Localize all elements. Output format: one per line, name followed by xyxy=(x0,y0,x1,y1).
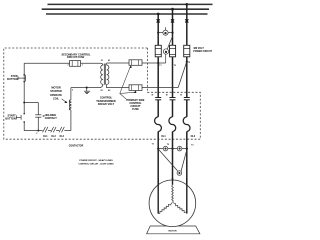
svg-text:X1: X1 xyxy=(101,60,103,62)
svg-text:OL1: OL1 xyxy=(161,136,166,138)
svg-text:T2: T2 xyxy=(174,65,176,67)
svg-text:T1: T1 xyxy=(152,144,154,146)
svg-text:T1: T1 xyxy=(159,65,161,67)
svg-text:480/120 VOLT: 480/120 VOLT xyxy=(98,103,115,106)
svg-text:OPERATE: OPERATE xyxy=(50,94,62,97)
svg-text:MOTOR: MOTOR xyxy=(168,231,177,233)
svg-text:BUTTON: BUTTON xyxy=(5,117,16,120)
svg-text:OL1: OL1 xyxy=(43,136,48,138)
svg-text:CIRCUIT FUSE: CIRCUIT FUSE xyxy=(67,56,85,59)
svg-text:T2: T2 xyxy=(167,144,169,146)
svg-text:COIL: COIL xyxy=(53,98,59,101)
svg-text:T3: T3 xyxy=(191,145,193,147)
svg-text:480 VOLT: 480 VOLT xyxy=(193,47,204,50)
svg-text:POWER CIRCUIT - HEAVY LINES: POWER CIRCUIT - HEAVY LINES xyxy=(79,159,113,162)
svg-text:CONTROL CIRCUIT - LIGHT LINES: CONTROL CIRCUIT - LIGHT LINES xyxy=(78,164,114,166)
svg-text:H2: H2 xyxy=(108,90,110,92)
svg-text:CONTACTOR: CONTACTOR xyxy=(69,144,84,147)
svg-text:OL3: OL3 xyxy=(191,136,196,138)
svg-text:CONTACT: CONTACT xyxy=(45,117,58,120)
svg-text:OL2: OL2 xyxy=(51,136,56,138)
svg-text:H1: H1 xyxy=(108,60,110,62)
svg-text:STARTER: STARTER xyxy=(50,90,62,93)
svg-text:MOTOR: MOTOR xyxy=(51,87,60,90)
svg-text:X2: X2 xyxy=(100,90,102,92)
svg-text:POWER CIRCUIT: POWER CIRCUIT xyxy=(193,51,212,53)
svg-text:FUSE: FUSE xyxy=(132,108,139,111)
svg-text:1: 1 xyxy=(82,65,83,67)
svg-text:OL3: OL3 xyxy=(59,136,64,138)
svg-text:BUTTON: BUTTON xyxy=(7,78,18,81)
svg-text:2: 2 xyxy=(68,65,69,67)
svg-text:T3: T3 xyxy=(188,62,190,64)
svg-text:2: 2 xyxy=(72,90,73,92)
